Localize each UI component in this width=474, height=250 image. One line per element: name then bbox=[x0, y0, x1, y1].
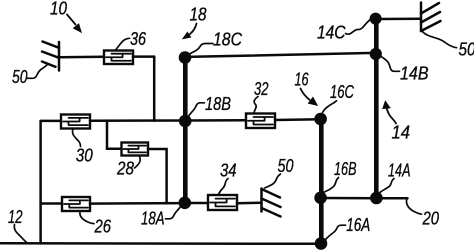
wire: drop to resistor 28 bbox=[107, 121, 122, 149]
ground 50 (left) bbox=[42, 42, 59, 71]
svg-text:20: 20 bbox=[422, 209, 439, 229]
svg-text:14C: 14C bbox=[317, 23, 346, 43]
leader from label 18A to node 18A bbox=[166, 207, 181, 219]
wire: resistor 32 to node 16C bbox=[275, 118, 321, 121]
leader from label 26 to resistor 26 bbox=[80, 212, 94, 224]
leader from label 36 to resistor 36 bbox=[116, 38, 130, 50]
svg-text:18: 18 bbox=[190, 5, 207, 25]
svg-text:16B: 16B bbox=[334, 159, 357, 179]
wire: resistor 26 to node 18A bbox=[90, 202, 185, 205]
ground 50 (middle right) bbox=[262, 189, 281, 217]
wire: node 18C to node 14B bbox=[186, 53, 375, 57]
leader from label 16B to node 16B bbox=[323, 178, 339, 193]
leader from label 14B to node 14B bbox=[380, 56, 400, 72]
node 16B bbox=[314, 192, 327, 205]
wire: to resistor 26 bbox=[41, 202, 62, 205]
leader from label 50 (left) to ground bbox=[28, 65, 48, 79]
svg-text:50: 50 bbox=[12, 67, 28, 87]
svg-text:50: 50 bbox=[459, 39, 474, 59]
wire: node 14C to top-right ground bbox=[376, 17, 421, 20]
leader from label 32 to resistor 32 bbox=[254, 97, 258, 113]
wire: node 18A to resistor 34 bbox=[185, 202, 208, 205]
resistor 28 bbox=[122, 143, 149, 156]
leader from label 18B to node 18B bbox=[189, 103, 205, 116]
svg-text:16: 16 bbox=[295, 69, 310, 89]
conductor line 18 (vertical) bbox=[183, 58, 188, 203]
wire: node 16B through node 14A to right end bbox=[321, 197, 408, 200]
leader from label 50 (middle right) to ground bbox=[265, 174, 281, 188]
ground 50 (top right) bbox=[421, 3, 441, 32]
svg-text:14A: 14A bbox=[388, 161, 411, 181]
node 16A bbox=[315, 237, 328, 250]
svg-text:30: 30 bbox=[76, 145, 93, 165]
wire: resistor 34 to mid ground bbox=[237, 202, 262, 205]
svg-text:50: 50 bbox=[278, 156, 294, 176]
svg-text:12: 12 bbox=[8, 207, 23, 227]
svg-text:16C: 16C bbox=[330, 82, 355, 102]
leader from label 20 to wire end bbox=[406, 199, 421, 215]
svg-text:26: 26 bbox=[94, 217, 112, 237]
leader from label 16A to node 16A bbox=[326, 225, 346, 239]
wire: left ground to resistor 36 bbox=[60, 56, 105, 59]
wire: corner down to 18B rail bbox=[153, 57, 156, 121]
wire: resistor 36 right to corner bbox=[133, 55, 154, 58]
leader from label 12 to bottom rail bbox=[14, 225, 26, 243]
leader from label 30 to resistor 30 bbox=[73, 129, 81, 147]
svg-text:28: 28 bbox=[116, 159, 134, 179]
resistor 32 bbox=[246, 114, 275, 129]
node 16C bbox=[314, 113, 327, 126]
svg-text:10: 10 bbox=[50, 0, 67, 18]
node 14A bbox=[370, 192, 383, 205]
node 18C bbox=[179, 51, 192, 64]
wire: bottom rail 12 bbox=[0, 242, 321, 245]
node 14B bbox=[370, 48, 382, 60]
leader from label 18C to node 18C bbox=[191, 44, 214, 54]
arrow from label 14 to line 14 bbox=[383, 101, 396, 123]
resistor 36 bbox=[104, 51, 133, 65]
svg-text:16A: 16A bbox=[346, 215, 370, 235]
wire: resistor 30 to node 18B bbox=[90, 119, 185, 122]
leader from label 14C to node 14C bbox=[346, 20, 371, 35]
leader from label 14A to node 14A bbox=[380, 179, 395, 193]
svg-text:18B: 18B bbox=[205, 94, 231, 114]
svg-text:14B: 14B bbox=[400, 64, 429, 84]
conductor line 16 (vertical) bbox=[319, 119, 324, 244]
resistor 26 bbox=[62, 197, 90, 211]
svg-text:32: 32 bbox=[254, 79, 269, 99]
resistor 30 bbox=[61, 115, 90, 129]
arrow from label 10 bbox=[67, 15, 81, 33]
leader from label 34 to resistor 34 bbox=[219, 179, 229, 195]
conductor line 14 (vertical) bbox=[374, 19, 379, 198]
svg-text:18A: 18A bbox=[141, 209, 165, 229]
node 14C bbox=[370, 13, 382, 25]
wire: left rail down (x=40.6) bbox=[39, 121, 42, 243]
svg-text:18C: 18C bbox=[213, 30, 243, 50]
svg-text:14: 14 bbox=[392, 122, 411, 142]
arrow from label 16 to node 16C bbox=[301, 89, 318, 106]
arrow from label 18 to node 18C bbox=[183, 24, 197, 39]
wire: corner to resistor 30 bbox=[41, 120, 61, 123]
resistor 34 bbox=[208, 195, 237, 210]
leader from label 28 to resistor 28 bbox=[135, 157, 141, 169]
wire: node 18B to resistor 32 bbox=[185, 119, 246, 122]
leader from label 16C to node 16C bbox=[323, 101, 337, 113]
wire: resistor 28 right to corner, down to 18A rail bbox=[148, 149, 167, 203]
svg-text:36: 36 bbox=[130, 29, 147, 49]
node 18A bbox=[179, 197, 192, 210]
node 18B bbox=[179, 115, 192, 128]
leader from label 50 (top right) to ground bbox=[422, 31, 457, 48]
